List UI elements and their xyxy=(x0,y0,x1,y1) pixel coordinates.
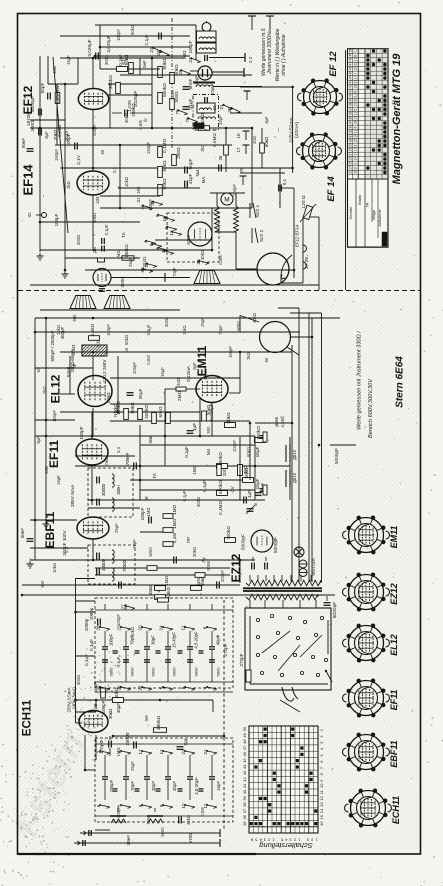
svg-text:24: 24 xyxy=(159,625,164,631)
cap extra 2 xyxy=(218,165,220,172)
tube EF12 triode-pentode xyxy=(78,89,108,110)
ground mid b xyxy=(29,561,31,564)
wire y575 xyxy=(95,574,230,576)
capacitor 16uF a xyxy=(260,435,267,437)
wire input left vertical xyxy=(39,56,41,252)
wire ech cathode x110 xyxy=(109,736,111,740)
svg-text:10kΩ: 10kΩ xyxy=(52,563,57,573)
fuse circle a xyxy=(299,560,307,568)
svg-text:70pF: 70pF xyxy=(146,815,151,825)
resistor 380kOhm xyxy=(154,728,167,733)
resistor 20 ohm second xyxy=(217,465,221,476)
svg-text:26: 26 xyxy=(178,69,183,75)
socket EBF11 base view xyxy=(349,735,384,770)
wire y508 xyxy=(88,507,140,509)
svg-text:17: 17 xyxy=(236,147,241,153)
ground x65 xyxy=(64,271,66,274)
capacitor 700nF xyxy=(133,463,135,470)
svg-text:Тк: Тк xyxy=(253,503,258,507)
svg-text:5000: 5000 xyxy=(160,827,165,837)
svg-text:200pF: 200pF xyxy=(220,570,225,582)
resistor 80kOhm xyxy=(138,409,143,420)
svg-text:0,3: 0,3 xyxy=(248,56,253,62)
svg-text:Sch 2: Sch 2 xyxy=(259,229,265,242)
bank1 column 24 lower contact xyxy=(163,687,173,689)
wire x65 vertical xyxy=(64,84,66,270)
svg-text:12: 12 xyxy=(354,111,358,115)
svg-text:700нF: 700нF xyxy=(125,452,130,465)
svg-text:300Ω: 300Ω xyxy=(30,120,35,132)
wire y404 xyxy=(110,403,165,405)
bank1 column 11 capacitor xyxy=(187,646,193,648)
playback head circle xyxy=(198,66,212,80)
svg-text:6800: 6800 xyxy=(172,667,177,677)
tube ECH11 xyxy=(79,711,108,733)
svg-text:60кΩ: 60кΩ xyxy=(264,136,269,147)
svg-text:18: 18 xyxy=(354,134,358,138)
wire y712 xyxy=(76,711,97,713)
bank2 column 2 contact xyxy=(100,751,110,753)
svg-text:5000: 5000 xyxy=(148,547,153,557)
tube bias oscillator xyxy=(188,222,212,246)
svg-text:0,1µF: 0,1µF xyxy=(89,639,94,651)
svg-text:10: 10 xyxy=(236,133,241,139)
capacitor 100pF bot xyxy=(133,742,135,749)
contact 26 xyxy=(181,70,190,73)
wire y95 xyxy=(108,94,152,96)
wire y423 right xyxy=(255,422,292,424)
wire x48 vert xyxy=(47,56,49,84)
svg-text:60: 60 xyxy=(264,357,269,362)
svg-text:6,3kΩ: 6,3kΩ xyxy=(166,587,171,599)
bank2 column 17 capacitor xyxy=(144,776,150,778)
resistor 1M small tube xyxy=(98,258,105,262)
svg-text:300Ω: 300Ω xyxy=(120,276,125,288)
svg-text:Φ3-0,5A: Φ3-0,5A xyxy=(311,557,316,575)
switch position table verticals xyxy=(248,726,250,833)
variable resistor 120 ohm xyxy=(303,205,313,219)
resistor 2MOhm xyxy=(176,387,186,391)
resistor 60k top extra xyxy=(260,143,265,153)
svg-text:2kΩ: 2kΩ xyxy=(246,352,251,360)
svg-text:42: 42 xyxy=(242,776,247,781)
wire y188 xyxy=(118,187,200,189)
svg-text:200pF: 200pF xyxy=(232,184,237,196)
svg-text:ДБ: ДБ xyxy=(92,247,97,253)
IF2 coil b xyxy=(112,568,114,581)
svg-text:1MΩ: 1MΩ xyxy=(172,505,177,516)
resistor extra y69 xyxy=(117,67,128,72)
motor feed left xyxy=(216,193,218,206)
svg-text:0,1µF: 0,1µF xyxy=(202,480,207,492)
svg-text:25µF: 25µF xyxy=(138,388,143,399)
svg-text:—: — xyxy=(276,127,281,132)
wire supply rail x299 xyxy=(298,308,300,582)
svg-text:43: 43 xyxy=(348,80,352,84)
svg-text:EF14: EF14 xyxy=(21,164,36,196)
svg-text:13: 13 xyxy=(319,802,324,807)
svg-text:Radio: Radio xyxy=(357,194,362,205)
terminal stub extra xyxy=(242,176,244,185)
svg-text:3,025µF: 3,025µF xyxy=(106,35,111,52)
svg-text:EF11: EF11 xyxy=(389,690,399,711)
svg-text:Д019: Д019 xyxy=(292,472,297,483)
svg-text:5000: 5000 xyxy=(186,235,191,245)
svg-text:2kΩ: 2kΩ xyxy=(42,386,47,394)
socket EF12 base view xyxy=(304,81,337,114)
cap arrow left b xyxy=(82,840,84,846)
capacitor 50nF xyxy=(183,86,190,88)
wire field coil right xyxy=(290,336,312,338)
svg-text:Wdgb: Wdgb xyxy=(372,210,376,220)
shield dash-dot vertical xyxy=(171,18,173,150)
svg-text:40Ω: 40Ω xyxy=(44,466,49,474)
capacitor pair bottom xyxy=(178,817,180,824)
svg-text:300Ω: 300Ω xyxy=(76,675,81,685)
svg-text:26: 26 xyxy=(117,685,122,691)
svg-text:25µF: 25µF xyxy=(194,75,199,85)
junction dots top xyxy=(92,57,95,60)
trim cap mid xyxy=(247,508,254,510)
bank1 column 24 contact xyxy=(163,627,173,629)
wire bridge y313 xyxy=(290,312,322,314)
svg-text:20Ω: 20Ω xyxy=(222,467,227,476)
wire x262 vert xyxy=(261,128,263,168)
svg-text:5: 5 xyxy=(354,109,358,111)
wire y412 xyxy=(60,411,200,413)
svg-text:70pF: 70pF xyxy=(218,325,223,335)
transformer secondary stubs xyxy=(249,600,251,608)
svg-text:49: 49 xyxy=(348,53,352,57)
svg-text:EF12 EF14: EF12 EF14 xyxy=(295,224,300,247)
svg-text:41µF: 41µF xyxy=(188,98,193,109)
wire bridge y308 xyxy=(278,307,299,309)
bank2 column 11 capacitor xyxy=(165,776,171,778)
svg-text:47: 47 xyxy=(242,745,247,750)
svg-text:39: 39 xyxy=(242,795,247,800)
svg-text:ECH11: ECH11 xyxy=(22,699,34,736)
svg-text:0,1МΩ: 0,1МΩ xyxy=(218,501,223,515)
svg-text:50кΩ: 50кΩ xyxy=(206,404,211,415)
svg-text:100Ω: 100Ω xyxy=(106,392,111,404)
wire EF12 cathode vertical xyxy=(92,110,94,171)
bank2 column 21 capacitor xyxy=(209,776,215,778)
socket EM11 base view xyxy=(349,518,384,553)
svg-text:45: 45 xyxy=(348,71,352,75)
svg-text:19: 19 xyxy=(354,116,358,120)
svg-text:0,5M: 0,5M xyxy=(200,807,205,817)
svg-text:150pF: 150pF xyxy=(228,346,233,358)
cap extra 1 xyxy=(158,33,160,40)
svg-text:500kΩ: 500kΩ xyxy=(162,83,167,97)
svg-text:16µF: 16µF xyxy=(160,367,165,377)
bank2 column 2 capacitor xyxy=(102,776,108,778)
wire y601 bottom xyxy=(76,600,96,602)
svg-text:16µF: 16µF xyxy=(255,478,260,489)
switch position table dots xyxy=(264,728,267,731)
wire y578 bottom xyxy=(76,578,96,580)
wire y352 xyxy=(60,351,292,353)
wire EF11 cathode xyxy=(91,465,93,505)
capacitor 1025pF xyxy=(124,110,126,117)
wire box bottom y173 xyxy=(240,172,285,174)
ground EF14 cathode xyxy=(39,253,41,256)
wire y770 left xyxy=(85,769,95,771)
svg-text:32: 32 xyxy=(348,129,352,133)
wire x110 vert xyxy=(109,84,111,128)
bank1 column 26 contact xyxy=(100,627,110,629)
contact 45 xyxy=(153,202,163,205)
svg-text:75: 75 xyxy=(175,109,180,115)
wire x250 vert mid xyxy=(249,423,251,480)
wire y120 xyxy=(30,119,65,121)
wire anode supply top xyxy=(95,24,196,26)
texture value labels xyxy=(36,25,269,837)
svg-text:29)31: 29)31 xyxy=(142,256,147,268)
resistor 1MOhm a xyxy=(163,514,173,519)
resistor 150kOhm small tube xyxy=(122,256,134,260)
svg-text:41pF: 41pF xyxy=(188,174,193,185)
svg-text:22: 22 xyxy=(354,62,358,66)
wire capstan link xyxy=(236,268,257,270)
svg-text:5: 5 xyxy=(164,226,169,229)
contact 4 xyxy=(146,241,156,244)
resistor 50kOhm a xyxy=(158,67,163,78)
svg-text:30000: 30000 xyxy=(101,558,106,571)
svg-text:44: 44 xyxy=(242,764,247,769)
svg-text:5000рF: 5000рF xyxy=(273,537,278,553)
svg-text:2: 2 xyxy=(96,750,101,753)
svg-text:2kΩ: 2kΩ xyxy=(66,181,71,189)
wire y560 xyxy=(30,559,255,561)
contact 27 top xyxy=(125,606,135,609)
head core coil xyxy=(196,85,214,87)
wire y568 xyxy=(95,567,230,569)
contact 22 head xyxy=(231,108,240,112)
svg-text:6800: 6800 xyxy=(194,667,199,677)
output transformer secondary xyxy=(104,296,130,309)
resistor 670kOhm xyxy=(217,491,228,496)
svg-text:250Ω-65mA: 250Ω-65mA xyxy=(70,349,75,372)
terminal stub y72 xyxy=(243,68,245,77)
bank2 column 5 contact xyxy=(121,751,131,753)
wire heater loop top xyxy=(303,216,319,218)
svg-text:50нF: 50нF xyxy=(21,138,26,148)
svg-text:250Ω: 250Ω xyxy=(176,147,181,159)
svg-text:10kΩ: 10kΩ xyxy=(56,325,61,335)
bank2 top wire xyxy=(95,743,233,745)
svg-text:100рF: 100рF xyxy=(79,426,84,439)
wire EF12 anode vertical xyxy=(92,58,94,89)
wire head bias y57 xyxy=(209,57,245,59)
svg-text:Werte gemessen mit Jnstrument: Werte gemessen mit Jnstrument 330Ω / xyxy=(357,330,363,430)
coil bank 2 enclosure xyxy=(95,738,233,822)
wire supply rail x312 xyxy=(311,318,313,582)
wire y193 motor xyxy=(210,192,245,194)
svg-text:22: 22 xyxy=(181,749,186,755)
svg-text:25: 25 xyxy=(96,685,101,691)
svg-text:0,5M: 0,5M xyxy=(146,355,151,365)
wire x120 vertical xyxy=(119,145,121,208)
svg-text:EF11: EF11 xyxy=(47,440,61,468)
svg-text:25: 25 xyxy=(348,161,352,165)
bank1 column 11 cap2 xyxy=(187,659,193,661)
svg-text:80kΩ: 80kΩ xyxy=(226,412,231,424)
capacitor 41nF xyxy=(183,106,190,108)
junction dots mid xyxy=(92,317,95,320)
wire y736 xyxy=(113,735,224,737)
resistor 50kOhm d xyxy=(158,185,163,196)
svg-text:14: 14 xyxy=(354,75,358,79)
svg-text:41: 41 xyxy=(242,783,247,788)
svg-text:26: 26 xyxy=(348,156,352,160)
contact 23 24 pair xyxy=(153,48,162,52)
svg-text:ДИ1: ДИ1 xyxy=(196,577,201,586)
svg-text:8: 8 xyxy=(138,804,143,807)
wire right bus x345 xyxy=(345,50,347,290)
tube EM11 magic eye xyxy=(196,376,228,403)
motor resistor right xyxy=(234,206,239,232)
svg-text:36: 36 xyxy=(242,814,247,819)
wire y75 xyxy=(120,74,252,76)
svg-text:0,1M: 0,1M xyxy=(172,533,177,544)
svg-text:МА: МА xyxy=(201,177,206,184)
svg-text:5нF: 5нF xyxy=(142,60,147,68)
electrolytic cap b xyxy=(264,563,266,570)
svg-text:380kΩ: 380kΩ xyxy=(156,716,162,731)
svg-text:ТА: ТА xyxy=(152,473,157,479)
wire ECH11 cathode xyxy=(95,735,97,760)
socket EZ12 base view xyxy=(349,575,384,610)
output coil 1 bottom xyxy=(110,815,126,817)
resistor 30kOhm bot xyxy=(113,698,124,703)
wire long y128 xyxy=(30,127,252,129)
capacitor switch right xyxy=(324,602,331,604)
svg-text:Б9: Б9 xyxy=(144,715,149,721)
bank1 column 26 lower contact xyxy=(100,687,110,689)
svg-text:100рF: 100рF xyxy=(140,507,145,520)
svg-text:500: 500 xyxy=(72,314,77,322)
svg-text:10: 10 xyxy=(181,803,186,809)
output coil 2 bottom xyxy=(147,815,163,817)
capacitor 25uF cath xyxy=(127,392,134,394)
cap extra mid a xyxy=(173,557,175,564)
wire y445 xyxy=(140,444,255,446)
svg-text:EF 14: EF 14 xyxy=(326,176,337,202)
svg-text:50kΩ: 50kΩ xyxy=(92,213,97,223)
coil 1019 a xyxy=(285,445,287,462)
junction dots bottom xyxy=(95,699,98,702)
svg-text:N№kΩ: N№kΩ xyxy=(113,403,118,417)
svg-text:300Ω: 300Ω xyxy=(164,317,169,327)
svg-text:30рF: 30рF xyxy=(151,635,156,645)
IF1 cap a xyxy=(96,477,98,484)
heater winding zigzag 1 xyxy=(246,580,321,586)
svg-text:300kΩ: 300kΩ xyxy=(144,405,149,419)
svg-text:21: 21 xyxy=(203,749,208,755)
wire EL12 grid xyxy=(60,393,75,395)
wire EM11 right xyxy=(229,392,240,394)
svg-text:28: 28 xyxy=(348,147,352,151)
svg-text:36: 36 xyxy=(348,111,352,115)
IF1 cap b xyxy=(96,499,98,506)
svg-text:50нF: 50нF xyxy=(20,528,25,538)
contact 8 xyxy=(152,244,162,247)
svg-text:1: 1 xyxy=(354,50,358,52)
wire y520 xyxy=(30,519,77,521)
capacitor head bias xyxy=(204,55,206,61)
svg-text:EM11: EM11 xyxy=(389,526,399,549)
terminal stub y95 xyxy=(246,91,248,100)
resistor 50kOhm c xyxy=(158,167,163,178)
resistor 20 ohm xyxy=(238,465,243,476)
svg-text:Д019: Д019 xyxy=(292,449,297,460)
svg-text:110,2 268V: 110,2 268V xyxy=(102,360,107,383)
wire grid EF12 xyxy=(48,83,78,85)
wire x46 vert mid xyxy=(45,318,47,520)
resistor 40k row c xyxy=(191,586,202,591)
svg-text:1MΩ: 1MΩ xyxy=(116,748,121,757)
svg-text:9: 9 xyxy=(159,804,164,807)
resistor 100kOhm c xyxy=(255,438,266,443)
svg-text:17: 17 xyxy=(138,749,143,755)
terminal stub 17 xyxy=(245,145,247,154)
svg-text:8: 8 xyxy=(354,55,358,57)
bank1 column 8 cap2 xyxy=(209,659,215,661)
bank1 column 23 cap2 xyxy=(123,659,129,661)
svg-text:6800: 6800 xyxy=(151,667,156,677)
wire y208 xyxy=(100,207,252,209)
IF2 cap b xyxy=(96,569,98,576)
svg-text:5030рF: 5030рF xyxy=(332,602,338,619)
svg-text:100pF: 100pF xyxy=(116,29,121,41)
capstan flywheel circle xyxy=(257,253,289,285)
resistor 60kOhm xyxy=(166,413,171,424)
svg-text:35: 35 xyxy=(242,821,247,826)
svg-text:Stern 6E64: Stern 6E64 xyxy=(395,356,406,408)
svg-text:9: 9 xyxy=(354,167,358,169)
svg-text:500pF / 2500pF: 500pF / 2500pF xyxy=(50,330,55,361)
svg-text:0,3: 0,3 xyxy=(64,546,69,552)
switch Sch2 xyxy=(251,228,253,243)
svg-text:EF 12: EF 12 xyxy=(328,51,339,77)
contact 35 xyxy=(199,261,209,264)
svg-text:8µF: 8µF xyxy=(36,436,41,444)
record head enclosure xyxy=(193,95,219,131)
wire y656 left xyxy=(76,655,96,657)
svg-text:6800: 6800 xyxy=(216,667,221,677)
svg-text:№4: №4 xyxy=(195,169,200,177)
svg-text:7: 7 xyxy=(161,250,166,253)
wire x140 vert mid xyxy=(139,425,141,500)
wire x196 vert xyxy=(195,25,197,60)
contact 7 xyxy=(164,251,174,254)
svg-text:100pF: 100pF xyxy=(232,440,237,452)
dashed switch enclosure xyxy=(167,213,219,262)
tube EF11 xyxy=(76,439,108,465)
socket EF11 base view xyxy=(349,681,384,716)
svg-text:29: 29 xyxy=(354,66,358,70)
ground mid a xyxy=(45,521,47,524)
resistor 80kOhm b xyxy=(225,423,236,428)
svg-text:2: 2 xyxy=(354,163,358,165)
pilot lamp xyxy=(294,547,304,557)
wire vertical x150 xyxy=(151,58,153,128)
socket EL12 base view xyxy=(349,626,384,661)
wire box top y87 xyxy=(240,86,293,88)
svg-text:48: 48 xyxy=(242,739,247,744)
svg-text:30kΩ: 30kΩ xyxy=(186,815,191,825)
